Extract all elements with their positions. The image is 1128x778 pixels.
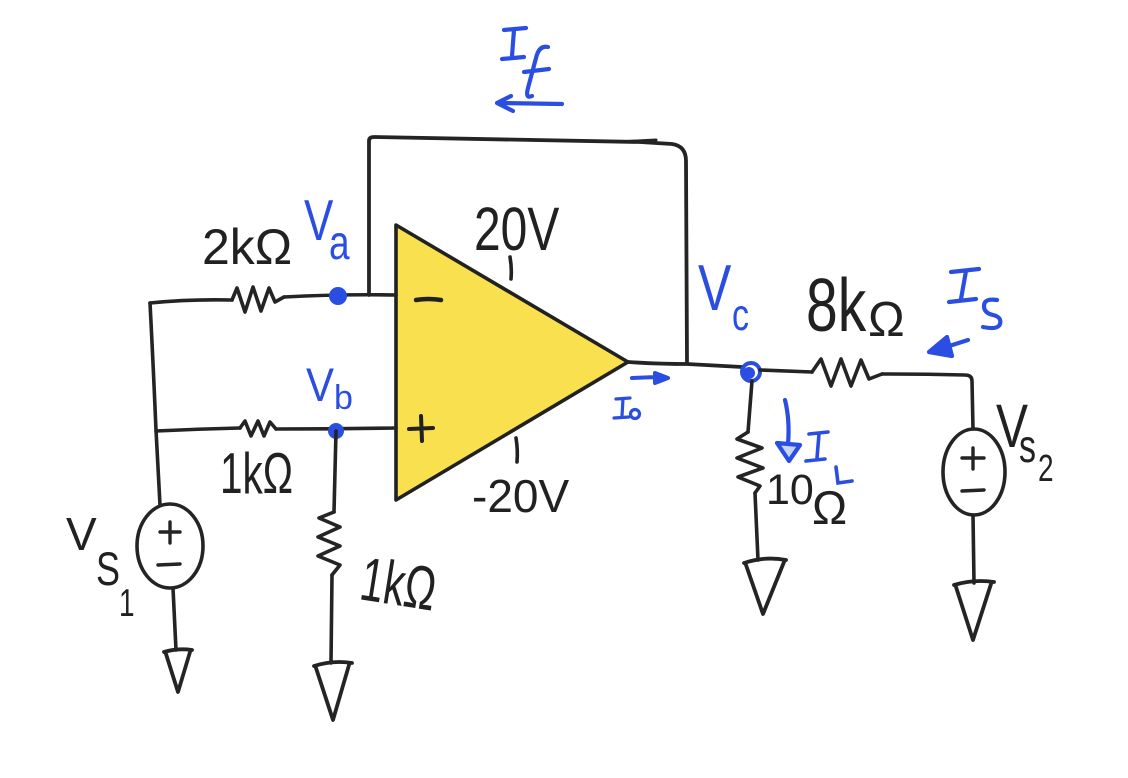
svg-text:1: 1 bbox=[119, 581, 135, 625]
arrow If bbox=[497, 96, 562, 111]
wire resistor to op-amp plus bbox=[276, 428, 396, 429]
wire Vc to 8k resistor bbox=[760, 370, 812, 372]
svg-text:V: V bbox=[698, 253, 732, 325]
svg-text:1kΩ: 1kΩ bbox=[356, 545, 441, 625]
label IL bbox=[806, 432, 852, 483]
resistor R1 2k zigzag bbox=[232, 287, 284, 312]
arrow Is bbox=[929, 337, 968, 356]
svg-text:Ω: Ω bbox=[868, 293, 905, 347]
svg-text:2: 2 bbox=[1038, 448, 1054, 490]
arrow Io bbox=[632, 373, 668, 383]
svg-text:Ω: Ω bbox=[812, 481, 847, 534]
label Vs1 bbox=[66, 508, 135, 625]
minus input symbol bbox=[416, 299, 441, 300]
label Io bbox=[614, 398, 640, 419]
ground 10ohm bbox=[744, 559, 786, 614]
source Vs2 bbox=[943, 429, 1005, 515]
wire Vs2 to ground bbox=[973, 515, 974, 583]
svg-text:1kΩ: 1kΩ bbox=[220, 441, 293, 506]
label Is bbox=[949, 269, 1000, 328]
wire output bbox=[628, 362, 742, 367]
wire resistor to op-amp minus bbox=[284, 295, 396, 297]
wire noninverting input row bbox=[156, 428, 240, 431]
label Va bbox=[304, 188, 350, 270]
resistor R3 1k vertical zigzag bbox=[318, 512, 340, 575]
wire left vertical bbox=[150, 303, 160, 505]
svg-text:8k: 8k bbox=[806, 264, 867, 347]
node Vc scribble bbox=[742, 363, 760, 381]
svg-text:20V: 20V bbox=[474, 194, 560, 263]
label Vb bbox=[306, 360, 353, 417]
svg-text:V: V bbox=[306, 360, 334, 412]
ground Vb branch bbox=[314, 662, 352, 720]
svg-text:s: s bbox=[1019, 420, 1036, 472]
label -20V bbox=[472, 438, 569, 522]
svg-text:2kΩ: 2kΩ bbox=[202, 219, 292, 275]
wire inverting input row bbox=[150, 300, 232, 303]
label Vc bbox=[698, 253, 749, 340]
wire 8k to Vs2 corner bbox=[882, 374, 973, 429]
wire feedback loop pen overlap bbox=[617, 140, 656, 142]
wire Vc down to 10 ohm bbox=[748, 381, 752, 432]
wire R3 to ground bbox=[331, 575, 332, 663]
wire feedback loop bbox=[369, 137, 687, 363]
ground Vs1 bbox=[164, 649, 192, 692]
label 20V bbox=[474, 194, 560, 279]
resistor R4 8k zigzag bbox=[812, 359, 882, 386]
svg-text:b: b bbox=[334, 379, 353, 417]
wire 10ohm to ground bbox=[755, 493, 758, 560]
resistor R5 10ohm vertical zigzag bbox=[737, 432, 763, 493]
node Vb dot bbox=[328, 423, 344, 439]
ground Vs2 bbox=[954, 581, 994, 640]
node Va dot bbox=[329, 287, 347, 305]
resistor R2 1k zigzag bbox=[240, 421, 276, 436]
svg-text:a: a bbox=[329, 216, 350, 270]
svg-text:S: S bbox=[96, 542, 120, 595]
svg-text:-20V: -20V bbox=[472, 470, 569, 522]
arrow IL bbox=[777, 400, 800, 461]
plus input symbol bbox=[409, 416, 433, 441]
wire Vb down bbox=[334, 431, 336, 512]
svg-text:c: c bbox=[732, 291, 749, 340]
wire Vs1 to ground bbox=[173, 588, 176, 650]
svg-text:10: 10 bbox=[766, 466, 814, 514]
op-amp U1 bbox=[396, 225, 628, 500]
label Vs2 bbox=[996, 391, 1054, 490]
source Vs1 bbox=[137, 504, 203, 588]
label If bbox=[502, 28, 549, 97]
svg-text:V: V bbox=[66, 508, 97, 560]
